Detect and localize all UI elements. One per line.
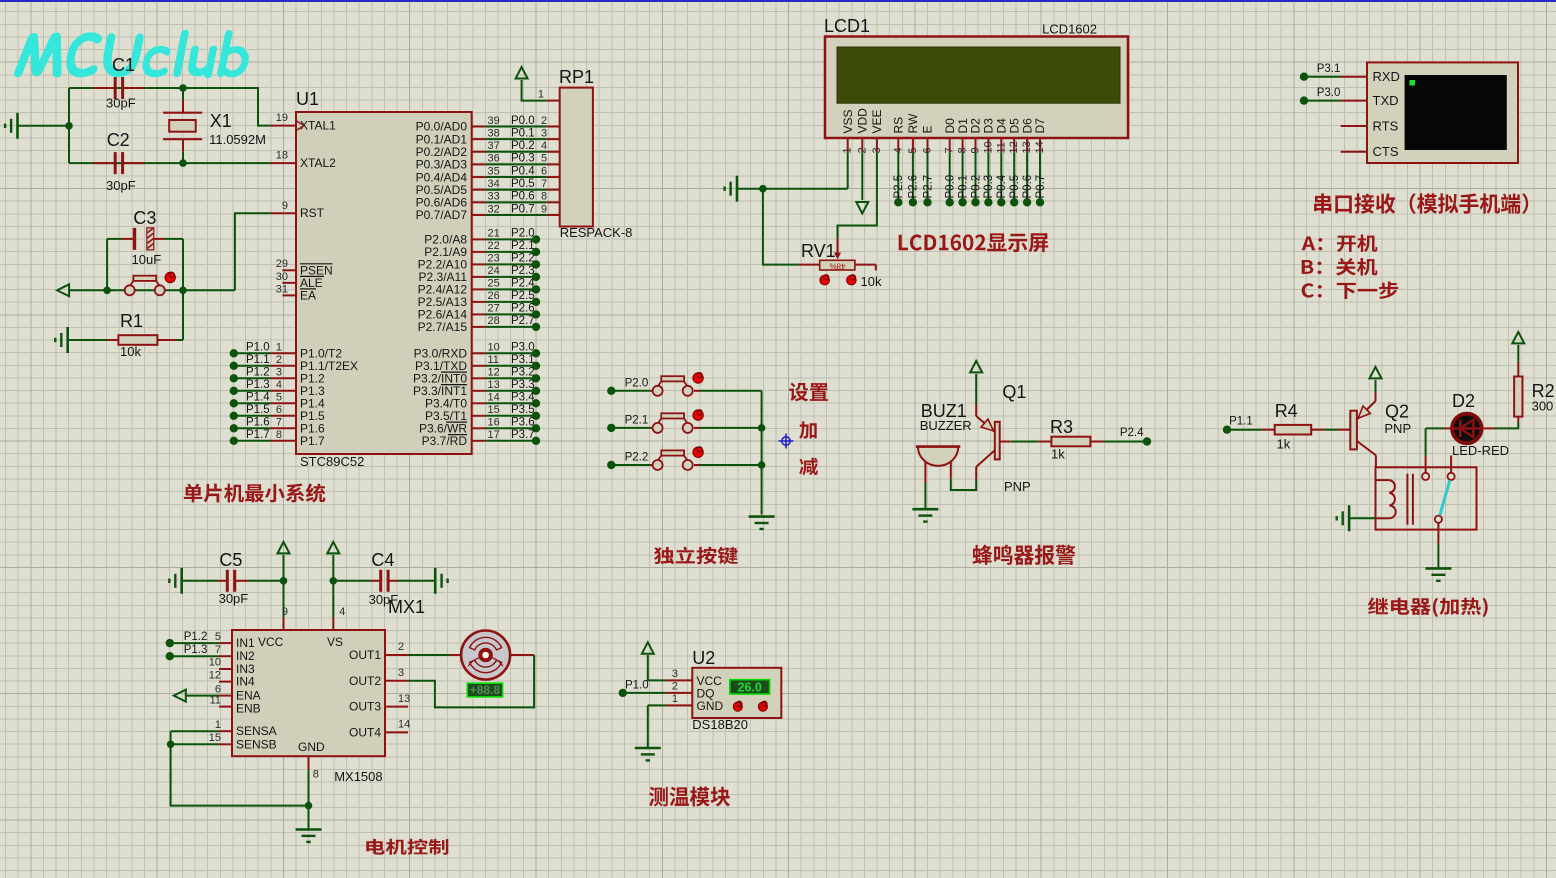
svg-text:10uF: 10uF	[132, 252, 162, 267]
svg-text:P1.2: P1.2	[246, 367, 270, 379]
svg-text:12: 12	[209, 669, 221, 681]
svg-text:14: 14	[1034, 141, 1046, 153]
svg-text:11.0592M: 11.0592M	[209, 132, 266, 147]
svg-text:2: 2	[398, 641, 404, 653]
svg-text:R1: R1	[120, 311, 143, 331]
svg-text:P0.2: P0.2	[970, 175, 982, 199]
svg-text:7: 7	[215, 644, 221, 656]
svg-text:4: 4	[276, 379, 282, 391]
svg-text:D2: D2	[1452, 391, 1475, 411]
svg-text:26.0: 26.0	[738, 681, 762, 695]
svg-text:10: 10	[488, 342, 500, 354]
svg-text:P0.1: P0.1	[511, 127, 535, 139]
svg-text:C4: C4	[371, 550, 394, 570]
svg-text:3: 3	[541, 127, 547, 139]
svg-text:Q2: Q2	[1385, 401, 1409, 421]
svg-text:BUZZER: BUZZER	[920, 418, 972, 433]
svg-text:P0.0: P0.0	[945, 175, 957, 199]
svg-text:D2: D2	[969, 118, 983, 134]
svg-text:4: 4	[541, 140, 547, 152]
svg-text:P0.6: P0.6	[1022, 175, 1034, 199]
svg-text:OUT1: OUT1	[349, 648, 381, 662]
svg-text:300: 300	[1532, 398, 1554, 413]
svg-text:RW: RW	[906, 113, 920, 133]
svg-text:C1: C1	[112, 55, 135, 75]
svg-text:P2.0: P2.0	[625, 378, 649, 390]
svg-text:15: 15	[488, 404, 500, 416]
svg-text:14: 14	[488, 392, 500, 404]
svg-text:1k: 1k	[1277, 436, 1291, 451]
svg-text:P2.5: P2.5	[893, 175, 905, 199]
svg-text:P0.6: P0.6	[511, 191, 535, 203]
svg-text:8: 8	[541, 191, 547, 203]
svg-text:RXD: RXD	[1373, 69, 1400, 84]
svg-text:P3.2: P3.2	[511, 367, 535, 379]
svg-text:8: 8	[313, 769, 319, 781]
svg-text:VCC: VCC	[258, 635, 284, 649]
svg-text:35: 35	[488, 165, 500, 177]
svg-text:D4: D4	[995, 118, 1009, 134]
svg-text:P0.7/AD7: P0.7/AD7	[416, 208, 468, 222]
svg-text:22: 22	[488, 240, 500, 252]
svg-text:11: 11	[210, 694, 221, 706]
svg-text:IN4: IN4	[236, 675, 255, 689]
svg-text:P0.1: P0.1	[957, 175, 969, 199]
svg-text:RP1: RP1	[559, 67, 594, 87]
svg-text:R3: R3	[1050, 417, 1073, 437]
svg-text:12: 12	[488, 367, 500, 379]
svg-text:P0.5: P0.5	[511, 178, 535, 190]
svg-text:P1.3: P1.3	[184, 644, 208, 656]
svg-text:LCD1602: LCD1602	[1042, 22, 1097, 37]
svg-text:30pF: 30pF	[219, 591, 249, 606]
svg-text:1: 1	[215, 719, 221, 731]
svg-text:E: E	[921, 125, 935, 133]
svg-text:31: 31	[276, 283, 288, 295]
svg-text:PNP: PNP	[1004, 479, 1031, 494]
svg-text:P2.2: P2.2	[625, 452, 649, 464]
svg-text:33: 33	[488, 191, 500, 203]
svg-text:RST: RST	[300, 206, 325, 220]
svg-text:13: 13	[488, 379, 500, 391]
svg-text:LCD1: LCD1	[824, 16, 870, 36]
svg-text:2: 2	[276, 354, 282, 366]
svg-text:1: 1	[538, 89, 544, 101]
svg-text:VDD: VDD	[856, 108, 870, 134]
svg-text:P3.7: P3.7	[511, 429, 535, 441]
svg-text:P3.6: P3.6	[511, 417, 535, 429]
svg-text:10: 10	[209, 657, 221, 669]
svg-text:VEE: VEE	[870, 109, 884, 133]
svg-text:D6: D6	[1020, 118, 1034, 134]
svg-text:D5: D5	[1007, 118, 1021, 134]
svg-text:RESPACK-8: RESPACK-8	[560, 225, 633, 240]
svg-text:8: 8	[276, 429, 282, 441]
svg-text:+88.8: +88.8	[470, 683, 501, 697]
svg-text:P1.6: P1.6	[246, 417, 270, 429]
svg-text:EA: EA	[300, 288, 316, 302]
svg-text:39: 39	[488, 115, 500, 127]
svg-text:10: 10	[982, 141, 994, 153]
svg-text:P1.4: P1.4	[246, 392, 270, 404]
svg-text:P2.7: P2.7	[922, 175, 934, 199]
svg-text:P0.3: P0.3	[983, 175, 995, 199]
svg-text:P1.2: P1.2	[184, 631, 208, 643]
svg-text:9: 9	[282, 606, 288, 618]
svg-text:P2.0: P2.0	[511, 228, 535, 240]
svg-text:37: 37	[488, 140, 500, 152]
svg-text:D3: D3	[982, 118, 996, 134]
svg-text:U1: U1	[296, 89, 319, 109]
svg-text:7: 7	[541, 178, 547, 190]
svg-text:XTAL1: XTAL1	[300, 119, 336, 133]
svg-text:SENSA: SENSA	[236, 724, 277, 738]
svg-text:P3.4: P3.4	[511, 392, 535, 404]
svg-text:38: 38	[488, 127, 500, 139]
svg-text:14: 14	[398, 719, 410, 731]
svg-text:2: 2	[672, 681, 678, 693]
svg-text:10k: 10k	[861, 274, 882, 289]
svg-text:10k: 10k	[120, 344, 141, 359]
svg-text:P2.6: P2.6	[908, 175, 920, 199]
svg-text:9: 9	[541, 203, 547, 215]
svg-text:PNP: PNP	[1384, 421, 1411, 436]
svg-text:P2.2: P2.2	[511, 253, 535, 265]
svg-text:C3: C3	[133, 208, 156, 228]
svg-text:P2.7: P2.7	[511, 315, 535, 327]
svg-text:30pF: 30pF	[106, 96, 136, 111]
svg-text:D1: D1	[956, 118, 970, 134]
svg-text:P1.3: P1.3	[246, 379, 270, 391]
svg-text:ENA: ENA	[236, 689, 261, 703]
svg-text:P1.7: P1.7	[300, 434, 325, 448]
svg-text:16: 16	[488, 417, 500, 429]
svg-text:D7: D7	[1033, 118, 1047, 134]
svg-text:P1.0: P1.0	[625, 680, 649, 692]
svg-text:P0.2: P0.2	[511, 140, 535, 152]
svg-text:P1.1: P1.1	[1229, 416, 1253, 428]
svg-text:21: 21	[488, 228, 500, 240]
svg-text:RTS: RTS	[1373, 118, 1399, 133]
svg-text:P0.0: P0.0	[511, 115, 535, 127]
svg-text:P3.7/RD: P3.7/RD	[422, 434, 468, 448]
svg-text:P3.0: P3.0	[1317, 87, 1341, 99]
svg-text:C5: C5	[219, 550, 242, 570]
svg-text:13: 13	[1021, 141, 1033, 153]
svg-text:29: 29	[276, 258, 288, 270]
svg-text:P3.1: P3.1	[1317, 63, 1341, 75]
svg-text:25: 25	[488, 278, 500, 290]
svg-text:P0.4: P0.4	[996, 174, 1008, 198]
svg-text:P0.5: P0.5	[1009, 175, 1021, 199]
svg-text:DS18B20: DS18B20	[692, 717, 748, 732]
svg-text:13: 13	[398, 693, 410, 705]
svg-text:ENB: ENB	[236, 702, 261, 716]
svg-text:MX1: MX1	[388, 597, 425, 617]
svg-text:11: 11	[995, 142, 1007, 153]
svg-text:P2.3: P2.3	[511, 265, 535, 277]
svg-text:27: 27	[488, 303, 500, 315]
svg-text:STC89C52: STC89C52	[300, 454, 364, 469]
svg-text:P1.5: P1.5	[246, 404, 270, 416]
svg-text:32: 32	[488, 203, 500, 215]
svg-text:P0.7: P0.7	[1035, 175, 1047, 199]
svg-text:SENSB: SENSB	[236, 737, 277, 751]
svg-text:36: 36	[488, 153, 500, 165]
svg-text:Q1: Q1	[1002, 382, 1026, 402]
svg-text:P0.7: P0.7	[511, 203, 535, 215]
svg-text:P2.1: P2.1	[625, 415, 649, 427]
svg-text:19: 19	[276, 112, 288, 124]
svg-text:RV1: RV1	[801, 241, 836, 261]
svg-text:30: 30	[276, 271, 288, 283]
svg-text:5: 5	[215, 631, 221, 643]
svg-text:P3.1: P3.1	[511, 354, 535, 366]
svg-text:30pF: 30pF	[106, 178, 136, 193]
svg-text:IN1: IN1	[236, 636, 255, 650]
svg-text:26: 26	[488, 290, 500, 302]
svg-text:P1.1: P1.1	[246, 354, 270, 366]
svg-text:P3.3: P3.3	[511, 379, 535, 391]
svg-text:P2.6: P2.6	[511, 303, 535, 315]
svg-text:2: 2	[541, 115, 547, 127]
svg-text:6: 6	[276, 404, 282, 416]
svg-text:24: 24	[488, 265, 500, 277]
svg-text:LED-RED: LED-RED	[1452, 443, 1509, 458]
svg-text:RS: RS	[892, 117, 906, 134]
svg-text:5: 5	[276, 392, 282, 404]
svg-text:28: 28	[488, 315, 500, 327]
svg-text:P2.4: P2.4	[511, 278, 535, 290]
svg-text:12: 12	[1008, 141, 1020, 153]
svg-text:P2.5: P2.5	[511, 290, 535, 302]
svg-text:1: 1	[672, 693, 678, 705]
svg-text:X1: X1	[210, 111, 232, 131]
svg-text:17: 17	[488, 429, 500, 441]
svg-text:4: 4	[339, 606, 345, 618]
svg-text:P2.7/A15: P2.7/A15	[418, 320, 468, 334]
svg-text:OUT4: OUT4	[349, 725, 381, 739]
svg-text:3: 3	[398, 667, 404, 679]
svg-text:OUT3: OUT3	[349, 700, 381, 714]
svg-text:P3.5: P3.5	[511, 404, 535, 416]
svg-text:VSS: VSS	[841, 109, 855, 133]
svg-text:GND: GND	[697, 699, 724, 713]
svg-text:XTAL2: XTAL2	[300, 156, 336, 170]
svg-text:P0.4: P0.4	[511, 165, 535, 177]
svg-text:9: 9	[282, 200, 288, 212]
svg-text:11: 11	[488, 354, 499, 366]
svg-text:C2: C2	[107, 130, 130, 150]
svg-text:GND: GND	[298, 740, 325, 754]
svg-text:P3.0: P3.0	[511, 342, 535, 354]
svg-text:3: 3	[672, 668, 678, 680]
svg-text:1k: 1k	[1051, 447, 1065, 462]
svg-text:P1.0: P1.0	[246, 342, 270, 354]
svg-text:6: 6	[541, 165, 547, 177]
svg-text:P2.1: P2.1	[511, 240, 535, 252]
svg-text:VS: VS	[327, 635, 343, 649]
svg-text:1: 1	[276, 342, 282, 354]
svg-text:P2.4: P2.4	[1120, 427, 1144, 439]
svg-text:CTS: CTS	[1373, 144, 1399, 159]
svg-text:R4: R4	[1275, 401, 1298, 421]
svg-text:18: 18	[276, 150, 288, 162]
svg-text:15: 15	[209, 732, 221, 744]
svg-text:MX1508: MX1508	[334, 769, 382, 784]
svg-text:48%: 48%	[829, 261, 845, 270]
svg-text:TXD: TXD	[1373, 93, 1399, 108]
svg-text:D0: D0	[943, 118, 957, 134]
svg-text:3: 3	[276, 367, 282, 379]
svg-text:5: 5	[541, 153, 547, 165]
svg-text:U2: U2	[692, 648, 715, 668]
svg-text:34: 34	[488, 178, 500, 190]
svg-text:23: 23	[488, 253, 500, 265]
svg-text:OUT2: OUT2	[349, 674, 381, 688]
svg-text:P1.7: P1.7	[246, 429, 270, 441]
svg-text:7: 7	[276, 417, 282, 429]
svg-text:P0.3: P0.3	[511, 153, 535, 165]
